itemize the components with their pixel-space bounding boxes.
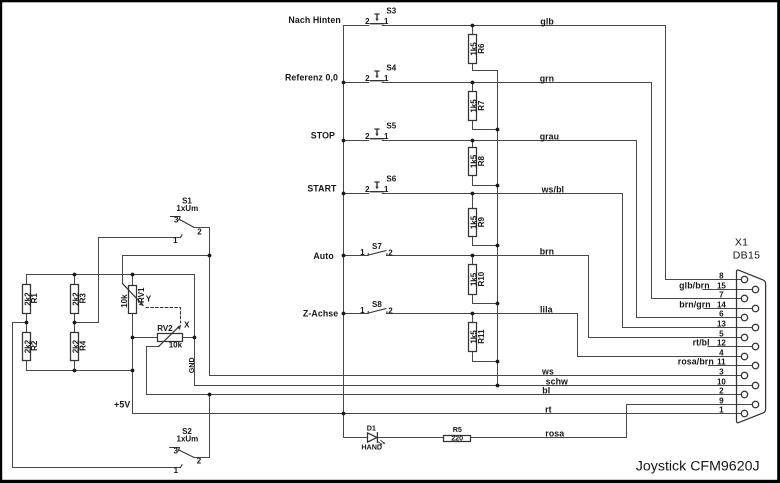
wire net rosa: R5 to pin 9 (471, 405, 753, 438)
X1 pin 8 circle (741, 276, 747, 282)
switch S8 lever (368, 309, 387, 314)
svg-text:5: 5 (719, 329, 724, 338)
wire pin12 stub rt/bl (708, 346, 752, 348)
resistor R11 body (469, 323, 477, 352)
svg-text:15: 15 (717, 281, 726, 290)
svg-text:13: 13 (717, 319, 726, 328)
wire R3/R4 node to S1 pin1 (75, 238, 181, 323)
wire +5V column: RV1 bottom to rt row (132, 314, 134, 414)
wire S1 pin2 to ws node (194, 228, 209, 256)
svg-text:glb: glb (540, 16, 554, 26)
svg-text:bl: bl (542, 385, 550, 395)
junction bus/S5 (342, 139, 346, 143)
junction return bus/R10 (496, 302, 500, 306)
wire net lila: S8 row to pin 4 (344, 314, 742, 357)
svg-text:D1: D1 (367, 424, 376, 433)
junction S2 pin2/bl (208, 393, 212, 397)
potentiometer RV1 wiper arrow (123, 284, 145, 307)
junction return bus/R9 (496, 244, 500, 248)
LED D1 emission arrows (377, 439, 386, 448)
svg-text:2: 2 (365, 132, 370, 141)
svg-text:HAND: HAND (361, 443, 382, 452)
svg-text:S7: S7 (372, 242, 382, 251)
svg-text:10k: 10k (120, 294, 129, 308)
junction return bus/schw (496, 384, 500, 388)
svg-text:brn: brn (540, 246, 554, 256)
svg-text:S5: S5 (386, 122, 396, 131)
svg-text:+5V: +5V (114, 400, 130, 410)
svg-text:STOP: STOP (311, 131, 335, 141)
junction R3 top (73, 273, 77, 277)
svg-text:2: 2 (197, 227, 202, 236)
X1 pin 11 circle (752, 362, 758, 368)
pushbutton S4 (370, 70, 383, 80)
wire D1 cathode to R5 (377, 437, 443, 439)
svg-text:grau: grau (540, 131, 559, 141)
wire pin15 stub glb/brn (703, 289, 752, 291)
svg-text:1: 1 (173, 236, 178, 245)
X1 pin 13 circle (752, 324, 758, 330)
svg-text:12: 12 (717, 338, 726, 347)
svg-text:4: 4 (719, 348, 724, 357)
svg-text:R7: R7 (477, 100, 486, 111)
svg-text:S8: S8 (372, 300, 382, 309)
svg-text:R5: R5 (453, 425, 462, 434)
junction R10 top (471, 254, 475, 258)
svg-text:R9: R9 (477, 216, 486, 227)
svg-text:1xUm: 1xUm (176, 204, 198, 213)
svg-text:R10: R10 (477, 271, 486, 286)
svg-text:10: 10 (717, 377, 726, 386)
potentiometer RV1 body (129, 286, 137, 314)
svg-text:GND: GND (187, 357, 196, 373)
svg-text:1: 1 (384, 132, 389, 141)
svg-text:R4: R4 (78, 340, 87, 351)
svg-text:2: 2 (388, 249, 393, 258)
svg-text:2: 2 (388, 307, 393, 316)
svg-text:1: 1 (384, 17, 389, 26)
X1 pin 2 circle (741, 391, 747, 397)
wire RV2 left lead (133, 337, 158, 339)
wire R6 leads (473, 26, 498, 71)
svg-text:rt/bl: rt/bl (693, 337, 710, 347)
junction R9 top (471, 192, 475, 196)
svg-text:Z-Achse: Z-Achse (303, 308, 338, 318)
svg-text:1: 1 (384, 74, 389, 83)
wire net GND top row: R1/R3/RV1 tops (27, 274, 195, 276)
junction return bus/R7 (496, 128, 500, 132)
junction return bus/R11 (496, 360, 500, 364)
svg-text:brn/grn: brn/grn (679, 299, 711, 309)
svg-text:Referenz 0,0: Referenz 0,0 (285, 72, 338, 82)
resistor R10 body (469, 265, 477, 295)
switch S2 (SPDT 1xUm) (170, 448, 194, 468)
svg-text:1: 1 (719, 405, 724, 414)
resistor R8 body (469, 148, 477, 176)
wire net ws: S1 node to pin 3 (210, 256, 742, 376)
junction RV1 bottom/RV2 left (131, 336, 135, 340)
svg-text:3: 3 (719, 367, 724, 376)
wire S2 pin2 to bl (194, 395, 209, 458)
resistor R3 body (71, 285, 79, 314)
wire RV2 right lead to GND (183, 337, 195, 339)
junction bus/S7 (342, 254, 346, 258)
svg-text:R8: R8 (477, 155, 486, 166)
svg-text:Auto: Auto (313, 251, 334, 261)
svg-text:3: 3 (174, 216, 179, 225)
potentiometer RV2 wiper arrow (159, 325, 181, 347)
X1 pin 12 circle (752, 343, 758, 349)
svg-text:220: 220 (451, 434, 463, 443)
junction R7 top (471, 81, 475, 85)
junction R3/R4 mid (73, 321, 77, 325)
svg-text:8: 8 (719, 271, 724, 280)
svg-text:rosa/brn: rosa/brn (678, 356, 714, 366)
svg-text:Nach Hinten: Nach Hinten (288, 15, 340, 25)
wire switch common bus (left) (343, 26, 345, 414)
resistor R6 body (469, 35, 477, 64)
svg-text:9: 9 (719, 396, 724, 405)
svg-text:S4: S4 (386, 64, 396, 73)
wire net glb: S3 row to pin 8 (344, 26, 742, 280)
wire R10 leads (473, 256, 498, 304)
svg-text:S6: S6 (386, 175, 396, 184)
wire R11 leads (473, 314, 498, 362)
X1 pin 3 circle (741, 372, 747, 378)
resistor R9 body (469, 209, 477, 237)
junction R4 bottom (73, 369, 77, 373)
svg-text:1: 1 (384, 185, 389, 194)
X1 pin 9 circle (752, 401, 758, 407)
svg-text:14: 14 (717, 300, 726, 309)
X1 pin 4 circle (741, 353, 747, 359)
X1 pin 6 circle (741, 314, 747, 320)
svg-text:R6: R6 (477, 43, 486, 54)
svg-text:1: 1 (360, 306, 365, 315)
junction bus/S6 (342, 192, 346, 196)
svg-text:3: 3 (173, 446, 178, 455)
svg-text:2: 2 (197, 456, 202, 465)
svg-text:10k: 10k (169, 340, 183, 349)
svg-text:ws: ws (541, 366, 554, 376)
wire net grn: S4 row to pin 7 (344, 83, 742, 299)
wire RV1 wiper to S1 node (123, 256, 210, 284)
X1 pin 7 circle (741, 295, 747, 301)
junction R8 top (471, 139, 475, 143)
pushbutton S6 (370, 181, 383, 191)
wire R9 leads (473, 194, 498, 246)
wire RV1 top lead (132, 275, 134, 286)
svg-text:X1: X1 (735, 236, 748, 248)
svg-text:6: 6 (719, 309, 724, 318)
X1 pin 1 circle (741, 410, 747, 416)
svg-text:glb/brn: glb/brn (679, 280, 710, 290)
svg-text:ws/bl: ws/bl (541, 184, 565, 194)
wire net GND vertical and schw row to pin 10 (195, 275, 753, 386)
svg-text:RV2: RV2 (157, 324, 173, 333)
junction R6 top (471, 24, 475, 28)
junction R11 top (471, 312, 475, 316)
X1 pin 10 circle (752, 382, 758, 388)
wire net grau: S5 row to pin 6 (344, 141, 742, 318)
junction bus/rt row (342, 412, 346, 416)
wire net ws/bl: S6 row to pin 13 (344, 194, 753, 328)
wire +5V feed to D1 anode (344, 414, 368, 438)
svg-text:rt: rt (545, 404, 552, 414)
junction RV2 right/GND line (193, 336, 197, 340)
resistor R2 body (23, 333, 31, 361)
wire net bl: RV2 wiper to pin 2 (147, 347, 742, 395)
svg-text:R2: R2 (30, 340, 39, 351)
wire R2/R4 bottom row (27, 370, 133, 372)
svg-text:2: 2 (719, 386, 724, 395)
junction S1 pin2/ws node (208, 254, 212, 258)
wire pin14 stub brn/grn (704, 308, 752, 310)
wire R1/R2 node to S2 pin1 (13, 323, 181, 468)
wire R3 column leads (74, 275, 76, 371)
svg-text:grn: grn (540, 73, 554, 83)
svg-text:DB15: DB15 (733, 250, 760, 262)
resistor R1 body (23, 285, 31, 314)
svg-text:11: 11 (717, 357, 726, 366)
connector X1 DB15 body (737, 270, 766, 423)
wire resistor return bus to schw (497, 71, 499, 386)
wire net brn: S7 row to pin 5 (344, 256, 742, 338)
pushbutton S5 (370, 128, 383, 138)
svg-text:Y: Y (146, 295, 152, 304)
X1 pin 15 circle (752, 286, 758, 292)
svg-text:S3: S3 (386, 7, 396, 16)
junction return bus/R8 (496, 184, 500, 188)
svg-text:lila: lila (540, 304, 553, 314)
switch S1 (SPDT 1xUm) (171, 217, 195, 238)
svg-text:R3: R3 (78, 293, 87, 304)
svg-text:rosa: rosa (545, 428, 564, 438)
svg-text:START: START (307, 184, 337, 194)
junction bus/S4 (342, 81, 346, 85)
svg-text:7: 7 (719, 290, 724, 299)
X1 pin 5 circle (741, 334, 747, 340)
diode D1 triangle and cathode bar (368, 433, 378, 443)
switch S7 lever (368, 251, 387, 256)
svg-text:Joystick CFM9620J: Joystick CFM9620J (636, 458, 760, 474)
potentiometer RV2 body (158, 334, 183, 342)
X1 pin 14 circle (752, 305, 758, 311)
wire R1 column leads (26, 275, 28, 371)
wire R8 leads (473, 141, 498, 186)
svg-text:X: X (184, 320, 190, 329)
svg-text:1xUm: 1xUm (177, 435, 199, 444)
svg-text:2: 2 (365, 74, 370, 83)
wire pin11 stub rosa/brn (709, 365, 753, 367)
svg-text:2: 2 (365, 185, 370, 194)
pushbutton S3 (370, 13, 383, 23)
junction RV1 top (131, 273, 135, 277)
wire R7 leads (473, 83, 498, 130)
resistor R5 body (444, 436, 471, 442)
svg-text:1: 1 (174, 466, 179, 475)
junction R1/R2 mid (25, 321, 29, 325)
mechanical link dashed Y to X (146, 308, 181, 323)
junction bus/S8 (342, 312, 346, 316)
svg-text:R1: R1 (30, 293, 39, 304)
resistor R7 body (469, 92, 477, 121)
wire net rt/+5V row to pin 1 (133, 413, 742, 415)
svg-text:2: 2 (365, 17, 370, 26)
junction R2/R4 row/+5V column (131, 369, 135, 373)
svg-text:1: 1 (360, 248, 365, 257)
resistor R4 body (71, 333, 79, 361)
svg-text:R11: R11 (477, 329, 486, 344)
